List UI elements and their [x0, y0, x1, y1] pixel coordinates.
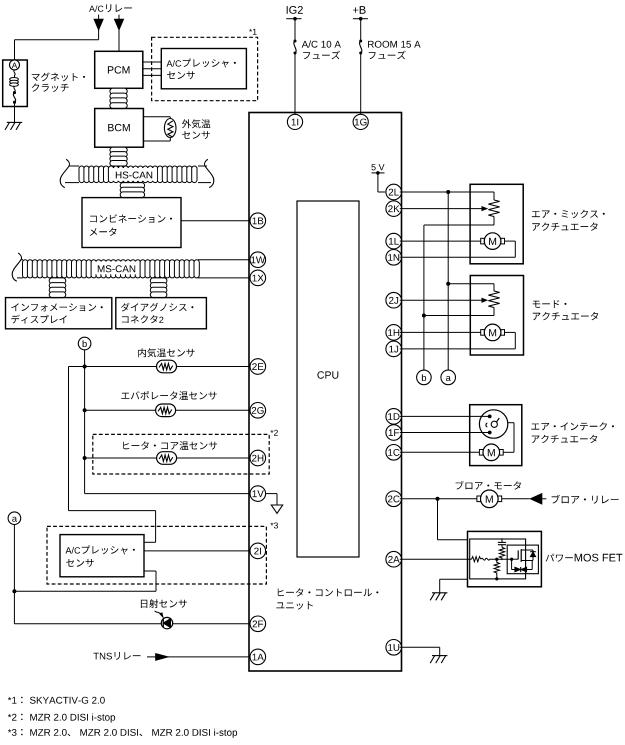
- junction dot b-2E: [83, 365, 87, 369]
- ambient temp sensor (thermistor): [164, 119, 176, 138]
- air mix motor M1: [481, 238, 485, 244]
- ground G2 (power MOS FET): [432, 592, 447, 594]
- combination meter box: [82, 198, 181, 248]
- wire fuse to pin 1G: [360, 53, 362, 115]
- footnote *1: [8, 697, 105, 704]
- wire IG2 to fuse: [294, 19, 296, 41]
- wire 1U to ground: [400, 647, 440, 655]
- wire node b to pin 1V: [85, 493, 251, 495]
- wire 1V continuation: [265, 494, 277, 505]
- solar sensor (photo diode): [161, 617, 172, 628]
- label heater core temp sensor: [123, 441, 217, 450]
- junction dot gate divider: [495, 558, 498, 561]
- diagnosis connector box: [116, 298, 207, 329]
- fuse ROOM 15A: [359, 40, 362, 43]
- node a (left): [8, 512, 21, 525]
- pull-up resistor R4: [499, 547, 504, 560]
- dashed box *1: [152, 37, 258, 100]
- wire motor to 1N: [400, 241, 516, 257]
- label A/C relay: [89, 4, 132, 12]
- wire node b line (right): [423, 225, 425, 370]
- pin 1J: [386, 341, 402, 357]
- MS-CAN rails left: [17, 260, 23, 278]
- wire TNS relay to pin 1A (arrow): [147, 654, 250, 661]
- wire 1C to motor: [400, 451, 480, 453]
- wire 2C junction to FET box: [438, 499, 468, 540]
- harness coil MS-CAN to diagnosis connector: [150, 278, 167, 284]
- arrow from blower relay: [530, 494, 546, 504]
- wire 1H to motor: [400, 331, 481, 333]
- wire divider rail: [492, 558, 512, 560]
- mode potentiometer R2: [488, 291, 499, 308]
- wire switch to motor: [503, 423, 514, 453]
- wire a to pressure sensor low: [14, 571, 156, 591]
- wire motor to 1J: [400, 332, 516, 349]
- wire 1F to switch: [400, 432, 488, 434]
- blower motor M4: [477, 496, 481, 502]
- label blower relay: [552, 495, 619, 504]
- wire pot bottom to node b: [424, 217, 494, 226]
- label PCM: [108, 66, 130, 73]
- MOS FET Q1 channel: [520, 549, 522, 562]
- HS-CAN rails left: [65, 166, 79, 183]
- ground G3 (pin 1U): [432, 655, 447, 657]
- label *2: [270, 430, 278, 436]
- wires BCM to ambient sensor: [143, 117, 170, 141]
- pin 2I: [250, 543, 266, 559]
- label BCM: [108, 124, 130, 131]
- mode motor M2: [481, 330, 485, 336]
- wire 2E branch down-right: [69, 367, 156, 543]
- label air intake actuator: [531, 422, 614, 443]
- label evaporator temp sensor: [121, 391, 216, 400]
- junction dot b-2G: [83, 408, 87, 412]
- A/C pressure sensor box 2: [60, 535, 144, 577]
- ground G1 (magnet clutch): [7, 121, 22, 123]
- pin 1A: [250, 649, 266, 665]
- wire FET source to ground rail: [440, 579, 468, 593]
- node a (right): [441, 370, 456, 385]
- wire fuse to pin 1I: [294, 53, 296, 115]
- label power MOS FET: [546, 554, 623, 562]
- heater core temp sensor (thermistor): [157, 452, 177, 465]
- MOS FET Q1 gate: [512, 550, 519, 559]
- footnote *3: [8, 729, 237, 738]
- junction dot b-mode: [422, 314, 426, 318]
- label A/C pressure sensor (PCM): [167, 59, 236, 80]
- label diagnosis connector 2: [121, 303, 193, 324]
- label TNS relay: [93, 652, 140, 660]
- pin 1W: [250, 252, 266, 268]
- junction dot gate: [510, 558, 513, 561]
- MOS FET Q1 drain: [521, 550, 533, 552]
- label 5V: [371, 164, 384, 170]
- node b (left): [78, 337, 91, 350]
- wire mode pot bottom to node b: [424, 308, 494, 316]
- air intake actuator box: [470, 405, 522, 466]
- wire 5V to pin 2L: [378, 173, 385, 192]
- power MOS FET outer box: [468, 531, 542, 586]
- switch contact dot bottom: [488, 431, 492, 435]
- footnote *2: [8, 714, 115, 723]
- clutch ammeter circle A: [10, 60, 20, 70]
- air intake position switch: [479, 410, 507, 438]
- label A/C pressure sensor 2: [66, 545, 135, 567]
- wire clutch to ground: [14, 107, 16, 123]
- junction dot 2C: [436, 497, 440, 501]
- evaporator temp sensor (thermistor): [156, 404, 176, 417]
- label cabin temp sensor: [138, 348, 194, 357]
- MOS FET Q1 body diode: [530, 552, 536, 561]
- harness coil PCM-BCM: [110, 88, 127, 94]
- wire 2C to blower motor: [400, 498, 477, 500]
- junction dot a-sensor: [12, 589, 16, 593]
- fuse A/C 10A: [294, 40, 297, 43]
- pin 1H: [386, 325, 402, 341]
- HS-CAN break left: [60, 159, 69, 187]
- open arrow down (1V ground ref): [271, 505, 282, 513]
- MOS FET box: [507, 545, 538, 574]
- pin 1C: [386, 445, 402, 461]
- MS-CAN break left: [12, 253, 21, 281]
- label blower motor: [456, 481, 521, 490]
- pin 2J: [386, 292, 402, 308]
- wire 1D to switch: [400, 415, 488, 417]
- pin 1N: [386, 249, 402, 265]
- wire a to mode pot: [448, 284, 494, 291]
- label A/C 10A fuse: [302, 41, 341, 60]
- wire 2J to wiper (arrow): [400, 298, 487, 302]
- pull-down resistor R5: [494, 559, 499, 577]
- mode actuator box: [470, 276, 523, 356]
- wires PCM to pressure sensor: [143, 62, 162, 75]
- label ROOM 15A fuse: [368, 41, 421, 60]
- clutch coil L1: [10, 70, 19, 92]
- pin 1L: [386, 233, 402, 249]
- wire node a down: [13, 525, 15, 624]
- HS-CAN bus band: [79, 166, 84, 183]
- label magnet clutch: [32, 73, 85, 92]
- pin 1I: [287, 114, 302, 129]
- wire A/C relay to magnet clutch (arrow): [15, 15, 104, 60]
- CPU box: [297, 201, 359, 557]
- label combination meter: [90, 214, 172, 236]
- pin 2G: [250, 403, 266, 419]
- switch contact dot top: [488, 415, 492, 419]
- junction dot resistor-ground: [495, 577, 498, 580]
- wire +B to fuse: [360, 19, 362, 41]
- wire cabin temp sensor to pin 2E: [69, 366, 251, 368]
- gate protection diodes: [512, 559, 533, 572]
- label air mix actuator: [532, 210, 605, 231]
- dashed box *2: [93, 434, 269, 474]
- PCM box: [95, 51, 143, 88]
- label *3: [270, 523, 278, 529]
- pin 2F: [250, 616, 266, 632]
- HS-CAN break right: [205, 159, 214, 187]
- harness coil BCM to HS-CAN: [110, 147, 127, 153]
- junction dot b-2H: [83, 456, 87, 460]
- MS-CAN bus band: [23, 260, 28, 278]
- wire MS-CAN to pin 1W: [198, 259, 250, 261]
- air mix actuator box: [470, 184, 523, 263]
- pin 1D: [386, 409, 402, 425]
- wire blower motor to relay: [502, 498, 530, 500]
- node 5V: [372, 171, 385, 175]
- label +B: [353, 6, 366, 14]
- magnet clutch box: [3, 60, 28, 107]
- pin 1F: [386, 425, 402, 441]
- pin 2K: [386, 201, 402, 217]
- pin 1U: [386, 640, 402, 656]
- junction dot a-mode: [446, 282, 450, 286]
- label heater control unit: [276, 588, 378, 609]
- clutch thermal fuse: [13, 91, 16, 106]
- wire node a line (right): [447, 192, 449, 370]
- capacitor C1: [498, 538, 506, 547]
- label MS-CAN: [92, 262, 139, 275]
- label *1: [249, 29, 257, 35]
- wire solar sensor to pin 2F: [14, 623, 250, 625]
- wire 2A to FET gate network: [400, 558, 472, 560]
- pin 2H: [250, 450, 266, 466]
- wire 2L to air mix pot: [400, 192, 494, 200]
- wire heater core temp sensor to pin 2H: [85, 457, 251, 459]
- pin 1B: [250, 213, 266, 229]
- MOS FET Q1 source: [521, 560, 533, 562]
- pin 2A: [386, 551, 402, 567]
- heater control unit box: [249, 113, 402, 672]
- label solar sensor: [141, 599, 187, 608]
- pin 1V: [250, 486, 266, 502]
- pin 1X: [250, 270, 266, 286]
- dashed box *3: [47, 526, 266, 584]
- wire node b common: [84, 350, 86, 494]
- label IG2: [287, 6, 303, 14]
- HS-CAN rails right: [198, 166, 211, 183]
- node b (right): [417, 370, 432, 385]
- junction dot 2L/node-a: [446, 190, 450, 194]
- wire evaporator temp sensor to pin 2G: [85, 409, 251, 411]
- information display box: [6, 298, 112, 329]
- label HS-CAN: [111, 168, 157, 181]
- wire 2K to wiper (arrow): [400, 207, 487, 211]
- wire 1L to motor: [400, 240, 481, 242]
- wire A/C relay to PCM (arrow): [115, 15, 124, 52]
- air mix potentiometer R1: [488, 200, 499, 217]
- harness coil HS-CAN to combination meter: [120, 183, 144, 189]
- A/C pressure sensor box (PCM): [161, 49, 246, 89]
- air intake motor M3: [479, 450, 483, 456]
- solar sensor pointer: [155, 611, 163, 617]
- wire pressure sensor to pin 2I: [144, 550, 250, 552]
- power MOS FET inner box: [470, 539, 526, 579]
- label information display: [11, 303, 102, 323]
- wire MS-CAN to pin 1X: [198, 277, 250, 279]
- label CPU: [317, 371, 338, 378]
- pin 1G: [353, 114, 368, 129]
- node IG2: [286, 17, 301, 21]
- pin 2L: [386, 184, 402, 200]
- BCM box: [95, 109, 144, 148]
- harness coil MS-CAN to info display: [49, 278, 66, 284]
- pin 2C: [386, 491, 402, 507]
- gate resistor R3: [472, 557, 493, 562]
- label ambient temp sensor: [182, 119, 210, 139]
- wire combination meter to pin 1B: [181, 220, 250, 222]
- pin 2E: [250, 359, 266, 375]
- label mode actuator: [533, 300, 599, 320]
- cabin temp sensor (thermistor): [157, 360, 177, 373]
- node +B: [353, 17, 368, 21]
